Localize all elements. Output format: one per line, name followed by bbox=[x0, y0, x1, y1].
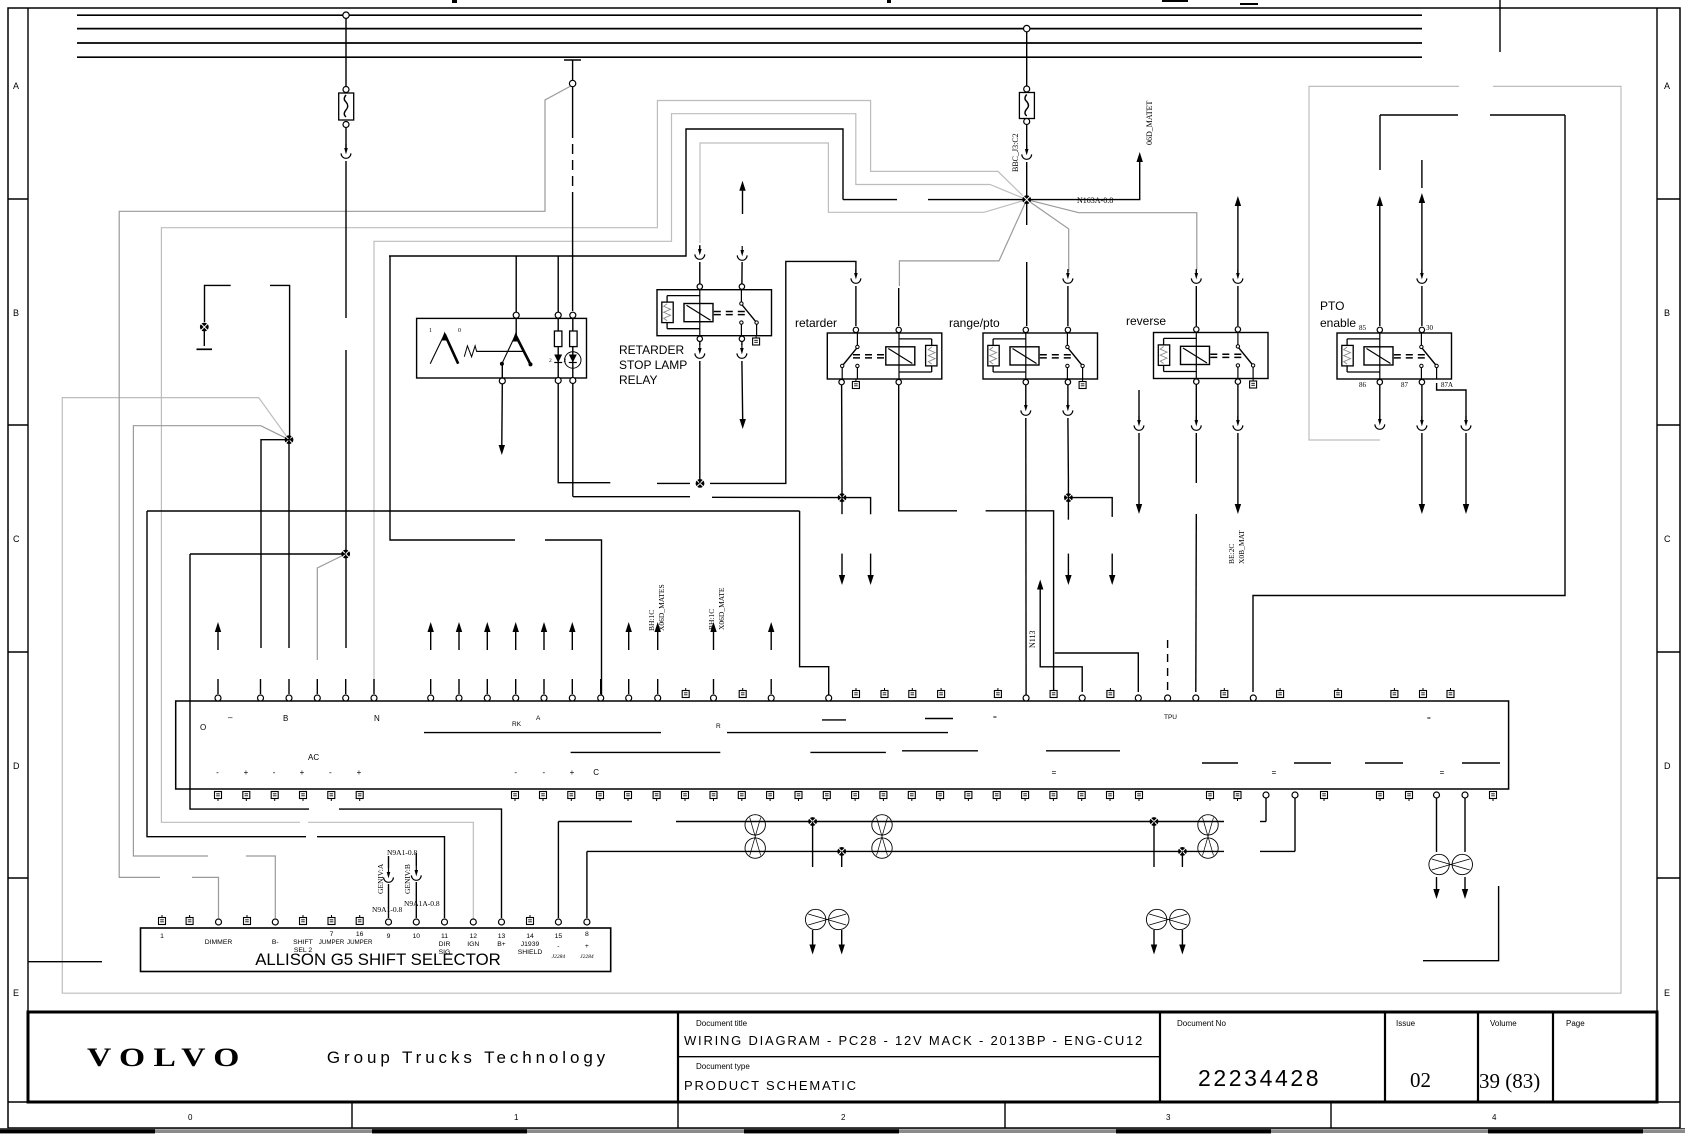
sensor pin circles bbox=[555, 312, 561, 318]
svg-text:JUMPER: JUMPER bbox=[319, 939, 345, 946]
svg-text:Group Trucks Technology: Group Trucks Technology bbox=[327, 1048, 609, 1067]
black box top right bbox=[1380, 114, 1458, 116]
wire branch to pin 1138 bbox=[1055, 653, 1139, 692]
svg-text:Issue: Issue bbox=[1396, 1019, 1416, 1028]
svg-text:DIR: DIR bbox=[439, 941, 451, 948]
svg-text:N9A1-0.8: N9A1-0.8 bbox=[387, 848, 417, 857]
strip bottom circle pins bbox=[1263, 792, 1269, 798]
svg-text:IGN: IGN bbox=[467, 941, 479, 948]
strip top square pins bbox=[682, 688, 1454, 698]
svg-text:4: 4 bbox=[1492, 1113, 1497, 1122]
svg-text:STOP LAMP: STOP LAMP bbox=[619, 358, 687, 372]
svg-text:reverse: reverse bbox=[1126, 314, 1166, 328]
corner bracket bottom right bbox=[1423, 886, 1499, 961]
grey branch node to reverse relay bbox=[1027, 200, 1197, 270]
svg-text:R: R bbox=[716, 723, 721, 730]
arrows below retarder junction bbox=[841, 554, 843, 576]
svg-text:1: 1 bbox=[429, 328, 432, 334]
svg-text:E: E bbox=[13, 988, 19, 998]
strip bottom square pins bbox=[215, 792, 1497, 802]
harness inner loop to retarder relay area bbox=[700, 143, 1027, 243]
svg-text:C: C bbox=[1664, 534, 1671, 544]
svg-text:22234428: 22234428 bbox=[1198, 1065, 1321, 1091]
svg-text:0: 0 bbox=[458, 328, 461, 334]
svg-text:86: 86 bbox=[1359, 381, 1367, 389]
wire retarder switch top bbox=[851, 269, 861, 283]
allison square pins bbox=[159, 915, 166, 925]
allison pin labels bbox=[160, 931, 589, 956]
svg-text:J1939: J1939 bbox=[521, 941, 540, 948]
svg-text:VOLVO: VOLVO bbox=[87, 1042, 248, 1072]
svg-text:0: 0 bbox=[188, 1113, 193, 1122]
svg-text:RK: RK bbox=[512, 721, 522, 728]
svg-text:DIMMER: DIMMER bbox=[205, 939, 233, 946]
twisted pair symbol horizontal 3 bbox=[1429, 854, 1473, 874]
wire stop lamp switch top arrow bbox=[739, 181, 745, 191]
svg-text:9: 9 bbox=[387, 933, 391, 940]
title block frame bbox=[28, 1012, 1657, 1102]
wires to third twisted pair bbox=[1436, 798, 1438, 852]
svg-text:11: 11 bbox=[441, 933, 448, 940]
wire W2 down to sensor bbox=[572, 87, 574, 128]
twisted pair symbol vertical 2 bbox=[872, 815, 892, 859]
svg-text:BE:2C: BE:2C bbox=[1227, 544, 1236, 564]
svg-text:PTO: PTO bbox=[1320, 299, 1344, 313]
svg-text:B+: B+ bbox=[497, 941, 506, 948]
wire PTO coil hook bbox=[1379, 383, 1381, 420]
svg-text:8: 8 bbox=[585, 931, 589, 938]
svg-text:X0B_MAT: X0B_MAT bbox=[1237, 530, 1246, 564]
wire sensor output to arrow bbox=[501, 365, 503, 378]
svg-text:A: A bbox=[536, 715, 541, 722]
svg-text:Volume: Volume bbox=[1490, 1019, 1517, 1028]
ALLISON G5 shift selector box bbox=[141, 928, 611, 972]
svg-text:B: B bbox=[13, 308, 19, 318]
wire horizontal y511 bbox=[147, 510, 800, 512]
ground branch wire bbox=[205, 285, 231, 322]
node circle on bus 1 bbox=[343, 12, 349, 18]
svg-text:+: + bbox=[570, 768, 575, 777]
svg-text:39 (83): 39 (83) bbox=[1479, 1069, 1540, 1093]
svg-text:PRODUCT SCHEMATIC: PRODUCT SCHEMATIC bbox=[684, 1078, 858, 1093]
connector square under stop lamp relay bbox=[753, 336, 760, 346]
svg-text:SHIELD: SHIELD bbox=[518, 949, 543, 956]
wire reverse coil top bbox=[1195, 270, 1197, 274]
wire W2 top bar bbox=[564, 59, 581, 61]
svg-text:02: 02 bbox=[1410, 1068, 1431, 1092]
svg-text:A: A bbox=[13, 81, 19, 91]
svg-text:–: – bbox=[228, 713, 233, 722]
svg-text:10: 10 bbox=[413, 933, 421, 940]
wire W1 fuse feed from bus 1 bbox=[345, 15, 347, 88]
wire sensor resistor branch upper bbox=[557, 256, 559, 312]
svg-text:RELAY: RELAY bbox=[619, 373, 657, 387]
sensor outer box bbox=[390, 256, 515, 540]
svg-text:Page: Page bbox=[1566, 1019, 1585, 1028]
GENIV:B wire to pin 10 bbox=[415, 853, 417, 866]
wire node horizontal left segments bbox=[843, 199, 897, 201]
grey route circuit to DIMMER pin bbox=[119, 85, 572, 877]
wire stub 1139 bbox=[1138, 390, 1140, 421]
harness route to strip pin at 374 bbox=[374, 114, 1027, 692]
twisted pair symbol vertical 3 bbox=[1198, 815, 1218, 859]
svg-text:A: A bbox=[1664, 81, 1670, 91]
junction2 bbox=[341, 550, 350, 559]
twisted pair symbol horizontal 2 bbox=[1146, 909, 1190, 929]
TPU connector strip box bbox=[176, 701, 1509, 789]
arrows below third pair bbox=[1436, 877, 1438, 890]
wire reverse coil long to strip bbox=[1195, 383, 1197, 421]
grey route junction1 to B- pin bbox=[133, 426, 289, 856]
fuse F2 bbox=[1024, 86, 1030, 92]
wire reverse switch top arrow bbox=[1237, 206, 1239, 274]
svg-text:GENIV:B: GENIV:B bbox=[403, 864, 412, 894]
svg-text:D: D bbox=[13, 761, 20, 771]
nested black rect top middle bbox=[389, 129, 843, 256]
junction stop lamp bbox=[696, 479, 705, 488]
junction stars on pair buses bbox=[808, 817, 817, 826]
power bus line 3 bbox=[77, 42, 1422, 44]
svg-text:30: 30 bbox=[1426, 324, 1434, 332]
svg-text:N9A1A-0.8: N9A1A-0.8 bbox=[404, 899, 440, 908]
wire range switch down bbox=[1067, 383, 1069, 406]
up arrows above strip pins bbox=[215, 622, 775, 650]
svg-text:-: - bbox=[273, 768, 276, 777]
junction range bbox=[1064, 493, 1073, 502]
svg-text:+: + bbox=[357, 768, 362, 777]
junction1 bbox=[285, 435, 294, 444]
svg-text:J2284: J2284 bbox=[552, 953, 566, 960]
svg-text:TPU: TPU bbox=[1164, 714, 1177, 721]
svg-text:-: - bbox=[542, 768, 545, 777]
svg-text:1: 1 bbox=[514, 1113, 519, 1122]
wire reverse switch with arrow bbox=[1237, 383, 1239, 421]
svg-text:-: - bbox=[557, 943, 559, 950]
wire sensor LED down bbox=[572, 384, 574, 497]
svg-text:2: 2 bbox=[564, 358, 567, 364]
twisted pair bus lower bbox=[587, 850, 1224, 852]
svg-text:N113: N113 bbox=[1028, 631, 1037, 648]
svg-text:N: N bbox=[374, 714, 380, 723]
wire retarder switch below to junction bbox=[841, 383, 843, 483]
svg-text:=: = bbox=[1052, 768, 1057, 777]
svg-text:Document type: Document type bbox=[696, 1062, 750, 1071]
grey branch node to retarder coil bbox=[899, 200, 1026, 286]
svg-text:87: 87 bbox=[1401, 381, 1409, 389]
wire 289 upper corner bbox=[270, 285, 290, 439]
wire y497 to retarder junction bbox=[573, 496, 690, 498]
svg-text:WIRING DIAGRAM - PC28 - 12V MA: WIRING DIAGRAM - PC28 - 12V MACK - 2013B… bbox=[684, 1033, 1144, 1048]
wire stop lamp relay junction horizontal bbox=[657, 482, 690, 484]
vertical wire top right short bbox=[1499, 0, 1501, 52]
wire node down to range relay bbox=[1026, 203, 1028, 225]
svg-text:1: 1 bbox=[160, 933, 164, 940]
sensor below-box pin circles bbox=[555, 378, 561, 384]
retarder relay K1 bbox=[827, 333, 942, 379]
svg-text:14: 14 bbox=[526, 933, 534, 940]
svg-text:J2284: J2284 bbox=[580, 953, 594, 960]
strip internal rules bbox=[424, 732, 661, 734]
left zone column line bbox=[27, 8, 29, 1012]
svg-text:15: 15 bbox=[555, 933, 563, 940]
node circle on W2 bbox=[569, 80, 575, 86]
svg-text:+: + bbox=[585, 943, 589, 950]
svg-text:SHIFT: SHIFT bbox=[293, 939, 313, 946]
bottom scan scale marks bbox=[0, 1128, 1685, 1130]
dashed stub pin 1167 bbox=[1167, 640, 1169, 694]
svg-text:3: 3 bbox=[1166, 1113, 1171, 1122]
sensor thermistor triangle 2 bbox=[502, 335, 516, 364]
range/pto relay K2 bbox=[983, 333, 1098, 379]
svg-text:JUMPER: JUMPER bbox=[347, 939, 373, 946]
svg-text:RETARDER: RETARDER bbox=[619, 343, 684, 357]
svg-text:N163A-0.8: N163A-0.8 bbox=[1077, 196, 1113, 205]
wire 1380 down to PTO bbox=[1379, 115, 1381, 170]
svg-text:O: O bbox=[200, 723, 206, 732]
sensor LED symbols bbox=[554, 355, 562, 363]
strip polarity row bbox=[216, 768, 1445, 777]
reverse relay K3 bbox=[1154, 333, 1269, 379]
PTO enable relay K4 bbox=[1337, 333, 1452, 379]
svg-text:ALLISON G5 SHIFT SELECTOR: ALLISON G5 SHIFT SELECTOR bbox=[255, 950, 501, 969]
wire 799 corner to strip pin 828 bbox=[800, 511, 829, 695]
harness route to strip pin 12 wire bbox=[161, 101, 1026, 823]
wire N113 with up arrow bbox=[1040, 585, 1082, 692]
wire 700 from relay to junction bbox=[699, 444, 701, 483]
svg-text:BBC_J3:C2: BBC_J3:C2 bbox=[1011, 133, 1020, 172]
svg-text:SEL 2: SEL 2 bbox=[294, 947, 312, 954]
wire 147 down to pin11 route bbox=[147, 511, 306, 837]
twisted pair symbol vertical 1 bbox=[745, 815, 765, 859]
svg-text:B: B bbox=[283, 714, 288, 723]
svg-text:Document title: Document title bbox=[696, 1019, 748, 1028]
svg-text:06D_MATET: 06D_MATET bbox=[1145, 100, 1154, 145]
sensor component box U2 bbox=[417, 318, 587, 378]
arrows below horizontal pairs bbox=[812, 930, 814, 945]
svg-text:C: C bbox=[593, 768, 599, 777]
wire right tall down to strip pin 1253 bbox=[1253, 115, 1565, 692]
svg-text:7: 7 bbox=[330, 931, 334, 938]
wire W1 below fuse bbox=[345, 128, 347, 150]
left zone ticks bbox=[8, 198, 28, 200]
strip pin stubs bbox=[218, 679, 771, 694]
wire stop lamp coil top bbox=[699, 246, 701, 250]
sensor thermistor triangle 1 bbox=[430, 334, 444, 364]
svg-text:2: 2 bbox=[841, 1113, 846, 1122]
harness outline loop from node A to PTO area bbox=[62, 86, 1621, 993]
svg-text:SIG: SIG bbox=[439, 949, 451, 956]
bottom number strip bbox=[8, 1101, 1680, 1103]
wire 190 down to pin13 route bbox=[190, 554, 309, 809]
retarder stop lamp relay U1 bbox=[657, 290, 772, 336]
wire retarder coil top bbox=[898, 288, 900, 326]
ground G1 star bbox=[200, 323, 209, 332]
svg-text:-: - bbox=[329, 768, 332, 777]
svg-text:=: = bbox=[993, 714, 997, 721]
top edge scan marks bbox=[887, 0, 891, 3]
arrows below range junction bbox=[1067, 554, 1069, 576]
wire retarder coil down and across bbox=[899, 383, 957, 511]
wire bottom left edge bbox=[28, 961, 102, 963]
svg-text:range/pto: range/pto bbox=[949, 316, 1000, 330]
svg-text:+: + bbox=[244, 768, 249, 777]
wire PTO 87A L-route bbox=[1437, 383, 1466, 421]
fuse F1 bbox=[343, 87, 349, 93]
twisted pair symbol horizontal 1 bbox=[805, 909, 849, 929]
wire junction2 horizontal bbox=[190, 553, 346, 555]
svg-text:BH:1C: BH:1C bbox=[647, 610, 656, 631]
svg-text:X06D_MATES: X06D_MATES bbox=[657, 584, 666, 631]
drops from pair bus junctions bbox=[812, 822, 814, 868]
connector hook on W1 bbox=[341, 144, 351, 158]
GENIV:A wire to pin 9 bbox=[388, 856, 390, 868]
wire junction1 to pin 260 bbox=[261, 440, 289, 648]
fuse F2 feed from bus 2 bbox=[1026, 29, 1028, 87]
svg-text:D: D bbox=[1664, 761, 1671, 771]
svg-text:enable: enable bbox=[1320, 316, 1356, 330]
svg-text:16: 16 bbox=[356, 931, 364, 938]
grey branch junction2 to strip pin 317 bbox=[317, 554, 345, 660]
svg-text:AC: AC bbox=[308, 753, 319, 762]
wire PTO switch with arrow bbox=[1421, 383, 1423, 421]
strip top circle pins bbox=[215, 695, 1256, 701]
svg-text:X06D_MATE: X06D_MATE bbox=[717, 587, 726, 630]
power bus line 4 bbox=[77, 56, 1422, 58]
wire below fuse F2 bbox=[1026, 125, 1028, 151]
sensor zigzag and link bbox=[464, 346, 523, 357]
wire node to 06D_MATET arrow bbox=[1030, 162, 1140, 200]
allison circle pins bbox=[216, 919, 222, 925]
wire stop lamp coil below bbox=[699, 341, 701, 345]
svg-text:+: + bbox=[300, 768, 305, 777]
power bus line 1 bbox=[77, 14, 1422, 16]
svg-text:=: = bbox=[1440, 768, 1445, 777]
svg-text:85: 85 bbox=[1359, 324, 1367, 332]
wire stop lamp switch below with arrow bbox=[741, 341, 743, 345]
svg-text:12: 12 bbox=[470, 933, 478, 940]
svg-text:87A: 87A bbox=[1441, 381, 1453, 389]
svg-text:retarder: retarder bbox=[795, 316, 837, 330]
right zone ticks bbox=[1657, 198, 1680, 200]
svg-text:=: = bbox=[1272, 768, 1277, 777]
wire sensor switch feed bbox=[515, 256, 517, 335]
svg-text:C: C bbox=[13, 534, 20, 544]
svg-text:13: 13 bbox=[498, 933, 506, 940]
wire junction1 vertical to strip pin bbox=[288, 440, 290, 648]
svg-text:B: B bbox=[1664, 308, 1670, 318]
junction retarder bbox=[838, 493, 847, 502]
svg-text:=: = bbox=[1427, 715, 1431, 722]
power bus line 2 bbox=[77, 28, 1422, 30]
wire sensor resistor branch lower bbox=[558, 384, 610, 483]
right zone column line bbox=[1656, 8, 1658, 1012]
node N163A bbox=[1022, 195, 1031, 204]
svg-text:N9A1-0.8: N9A1-0.8 bbox=[372, 905, 402, 914]
wire W1 to junction2 bbox=[345, 161, 347, 318]
svg-text:Document No: Document No bbox=[1177, 1019, 1226, 1028]
wire range switch top hook bbox=[1063, 269, 1073, 283]
svg-text:-: - bbox=[514, 768, 517, 777]
grey branch node to range switch wire bbox=[1027, 200, 1069, 272]
svg-text:B-: B- bbox=[272, 939, 279, 946]
svg-text:E: E bbox=[1664, 988, 1670, 998]
sensor internal resistors R bbox=[554, 331, 562, 347]
wire PTO switch top bbox=[1421, 160, 1423, 188]
svg-text:2: 2 bbox=[549, 358, 552, 364]
twisted pair bus upper bbox=[558, 821, 632, 823]
wire range coil to strip pin bbox=[1025, 383, 1027, 406]
svg-text:GENIV:A: GENIV:A bbox=[376, 863, 385, 894]
svg-text:-: - bbox=[216, 768, 219, 777]
